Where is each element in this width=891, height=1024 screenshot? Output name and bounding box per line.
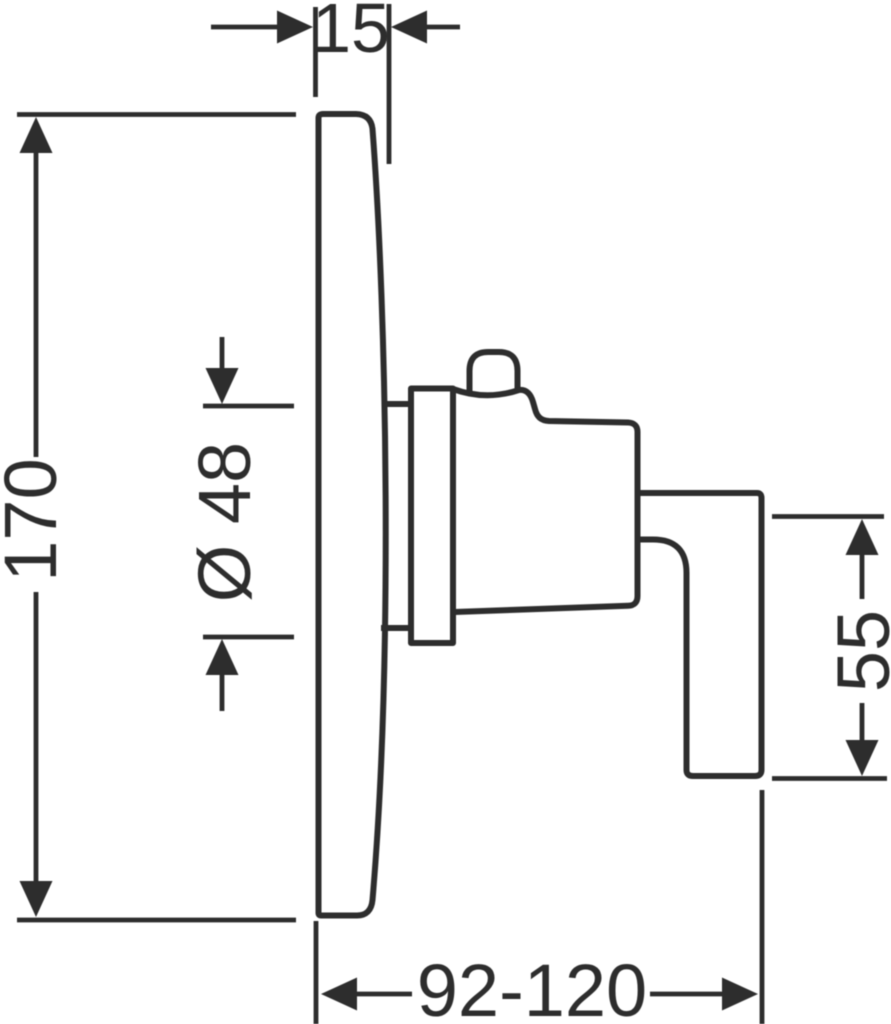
svg-text:15: 15	[312, 0, 390, 67]
svg-text:55: 55	[822, 610, 891, 692]
dim 15: right arrowhead	[391, 11, 427, 44]
dim 170: dimension line lower segment	[34, 592, 39, 884]
dim 15: extension line left	[313, 7, 318, 97]
valve body	[453, 389, 638, 612]
dim 55: top arrowhead	[846, 519, 879, 555]
dim 55: dimension line upper segment	[860, 552, 865, 599]
dim 15: extension line right	[387, 4, 392, 164]
sleeve bottom edge	[381, 625, 411, 631]
dim 55: extension line bottom	[772, 776, 887, 781]
dim 55: bottom arrowhead	[846, 740, 879, 776]
flange	[411, 389, 453, 644]
stop button	[470, 352, 518, 391]
dim 92-120: extension line left	[314, 921, 319, 1024]
escutcheon plate	[319, 114, 386, 916]
dim 170: bottom arrowhead	[20, 881, 53, 917]
sleeve top edge	[383, 401, 411, 407]
dim 170: dimension line upper segment	[34, 150, 39, 457]
dim 55: dimension line lower segment	[860, 703, 865, 743]
dim 55: extension line top	[772, 514, 884, 519]
dim 92-120: extension line right	[760, 790, 765, 1024]
dim 48: top arrow stem	[220, 337, 225, 371]
dim 15: dimension line right tail	[424, 25, 460, 30]
dim 92-120: dimension line left segment	[354, 992, 412, 997]
dim 48: bottom arrow stem	[220, 672, 225, 711]
dim 15: left arrowhead	[277, 11, 313, 44]
dim 170: extension line bottom	[17, 918, 296, 923]
dim 92-120: right arrowhead	[722, 978, 758, 1011]
svg-text:170: 170	[0, 458, 72, 581]
dim 48: top arrowhead	[206, 368, 239, 404]
dim 48: bottom arrowhead	[206, 639, 239, 675]
dim 170: top arrowhead	[20, 117, 53, 153]
dim 92-120: dimension line right segment	[650, 992, 725, 997]
dim 15: dimension line left tail	[211, 25, 280, 30]
handle lever	[638, 493, 762, 776]
dim 170: extension line top	[17, 112, 296, 117]
svg-text:92-120: 92-120	[417, 949, 647, 1024]
dim 48: tick top	[203, 404, 294, 409]
dim 48: tick bottom	[203, 635, 294, 640]
svg-text:Ø 48: Ø 48	[183, 442, 266, 602]
dim 92-120: left arrowhead	[321, 978, 357, 1011]
